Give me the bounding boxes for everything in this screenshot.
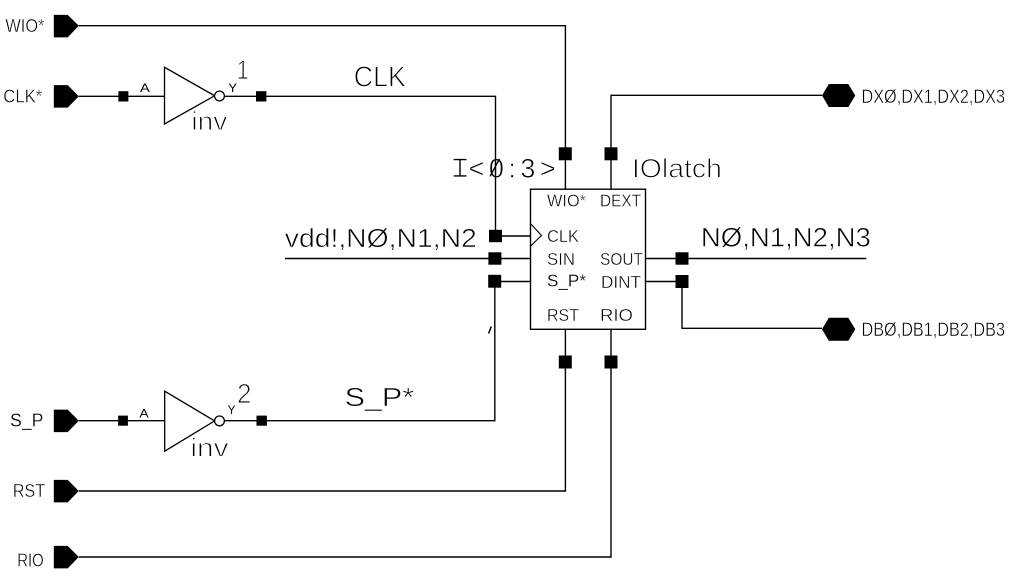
net label vdd!,N0,N1,N2: [285, 223, 477, 253]
svg-text:WIO*: WIO*: [5, 16, 44, 36]
block pin label DINT: [601, 272, 641, 292]
svg-text:inv: inv: [191, 106, 227, 136]
svg-text:2: 2: [237, 378, 252, 409]
svg-text:Y: Y: [228, 403, 236, 417]
input pin S_P: [54, 410, 79, 433]
svg-text:S_P*: S_P*: [345, 382, 415, 412]
junction square DINT: [676, 275, 689, 288]
svg-text:1: 1: [237, 55, 249, 85]
svg-text:<0:3>: <0:3>: [469, 153, 561, 183]
net label I<0:3>: [454, 153, 560, 183]
svg-text:WIO*: WIO*: [547, 191, 586, 211]
junction square S_P* at block: [488, 275, 501, 288]
svg-text:A: A: [140, 81, 150, 95]
svg-text:CLK*: CLK*: [3, 87, 42, 107]
instance number 1: [237, 55, 249, 85]
junction square on S_P wire: [118, 416, 128, 426]
svg-text:SIN: SIN: [547, 249, 575, 269]
svg-text:IOlatch: IOlatch: [632, 154, 722, 184]
clock wedge on CLK pin: [531, 224, 542, 246]
svg-text:CLK: CLK: [354, 61, 407, 93]
junction square SOUT: [676, 252, 689, 264]
instance number 2: [237, 378, 252, 409]
svg-text:S_P: S_P: [10, 411, 44, 432]
svg-text:RST: RST: [13, 481, 46, 501]
svg-text:DXØ,DX1,DX2,DX3: DXØ,DX1,DX2,DX3: [862, 87, 1006, 108]
junction square SIN: [488, 252, 501, 264]
wire net RIO: [79, 329, 611, 557]
input pin WIO*: [54, 15, 79, 38]
svg-text:SOUT: SOUT: [600, 249, 643, 269]
block instance IOlatch: [531, 189, 646, 329]
svg-text:DINT: DINT: [601, 272, 641, 292]
svg-text:RIO: RIO: [600, 305, 633, 325]
svg-text:DEXT: DEXT: [600, 191, 641, 211]
junction square on CLK* wire: [118, 91, 128, 101]
instance label IOlatch: [632, 154, 722, 184]
input pin CLK*: [54, 85, 79, 108]
wire net SIN (underline of vdd!,N0,N1,N2): [285, 258, 531, 260]
junction square RIO bottom pin: [605, 356, 618, 369]
junction square WIO* top pin: [559, 147, 572, 160]
pin label Y inverter 1: [228, 81, 237, 95]
inverter U2 triangle: [165, 391, 215, 451]
block pin label DEXT: [600, 191, 641, 211]
svg-text:RIO: RIO: [17, 551, 44, 571]
instance name inv (inverter 2): [190, 433, 228, 463]
svg-text:RST: RST: [547, 305, 579, 325]
pin label Y inverter 2: [228, 403, 236, 417]
block pin label RIO: [600, 305, 633, 325]
terminal label CLK*: [3, 87, 42, 107]
block pin label RST: [547, 305, 579, 325]
terminal label RST: [13, 481, 46, 501]
svg-text:DBØ,DB1,DB2,DB3: DBØ,DB1,DB2,DB3: [862, 320, 1006, 341]
junction square inverter 1 output: [256, 91, 266, 101]
net label CLK: [354, 61, 407, 93]
wire net RST: [79, 329, 566, 491]
input pin RIO: [54, 546, 79, 569]
inverter U1 output bubble: [215, 91, 225, 101]
wire net DINT to DB terminal: [646, 282, 823, 329]
wire net DEXT to DX terminal: [611, 95, 822, 189]
svg-text:vdd!,NØ,N1,N2: vdd!,NØ,N1,N2: [285, 223, 477, 253]
junction square inverter 2 output: [257, 416, 267, 426]
wire CLK* to inverter input: [79, 95, 165, 97]
junction square CLK at block: [489, 230, 502, 242]
wire net S_P* from inverter 2 up to block: [224, 282, 530, 421]
instance name inv (inverter 1): [191, 106, 227, 136]
terminal label DX0,DX1,DX2,DX3: [862, 87, 1006, 108]
terminal label S_P: [10, 411, 44, 432]
wire net SOUT / N0,N1,N2,N3: [646, 258, 867, 260]
terminal label RIO: [17, 551, 44, 571]
wire net CLK: [224, 96, 530, 236]
wire net WIO*: [79, 26, 566, 190]
block pin label S_P*: [547, 271, 586, 292]
output terminal DB hexagon: [822, 318, 855, 341]
output terminal DX hexagon: [822, 84, 855, 107]
svg-text:NØ,N1,N2,N3: NØ,N1,N2,N3: [701, 223, 871, 253]
pin label A inverter 1: [140, 81, 150, 95]
block pin label WIO*: [547, 191, 586, 211]
svg-text:CLK: CLK: [547, 226, 579, 246]
pin label A inverter 2: [139, 406, 148, 420]
junction square RST bottom pin: [559, 356, 572, 369]
inverter U2 output bubble: [215, 416, 225, 426]
block pin label SOUT: [600, 249, 643, 269]
svg-text:inv: inv: [190, 433, 228, 463]
junction square DEXT top pin: [605, 147, 618, 160]
input pin RST: [54, 480, 79, 503]
block pin label SIN: [547, 249, 575, 269]
wire S_P to inverter 2 input: [79, 420, 165, 422]
terminal label DB0,DB1,DB2,DB3: [862, 320, 1006, 341]
inverter U1 triangle: [165, 67, 215, 124]
stray apostrophe mark: [489, 327, 492, 334]
block pin label CLK: [547, 226, 579, 246]
svg-text:Y: Y: [228, 81, 237, 95]
net label N0,N1,N2,N3: [701, 223, 871, 253]
svg-text:A: A: [139, 406, 148, 420]
terminal label WIO*: [5, 16, 44, 36]
svg-text:S_P*: S_P*: [547, 271, 586, 292]
net label S_P*: [345, 382, 415, 412]
